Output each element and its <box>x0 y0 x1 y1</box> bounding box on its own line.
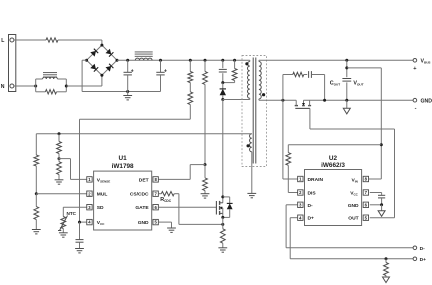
primary phase dot <box>245 62 248 65</box>
bulk capacitor C1 <box>124 60 134 91</box>
wire GATE <box>158 206 216 208</box>
body diode D6 <box>223 197 233 218</box>
node aux divider <box>58 132 61 135</box>
wire DET <box>158 165 205 180</box>
ground R15 arrow <box>383 276 390 283</box>
resistor RCDC <box>161 192 174 196</box>
ground COUT <box>343 100 350 114</box>
vsense resistor R11 <box>57 159 62 175</box>
node drain line <box>221 98 224 101</box>
transistor Q2 pads <box>295 105 311 107</box>
node clamp cap top <box>221 59 224 62</box>
svg-text:D+: D+ <box>308 216 315 222</box>
svg-text:NTC: NTC <box>67 211 77 216</box>
NTC thermistor <box>58 216 68 231</box>
U2 pin6 label GND <box>348 203 359 209</box>
snubber leg left <box>283 75 293 101</box>
U2 pin5 label OUT <box>348 216 358 222</box>
mul resistor R8 <box>34 134 39 166</box>
ground C4 <box>75 249 84 253</box>
svg-text:+: + <box>164 68 167 74</box>
bridge diode D4 lower-right <box>105 64 113 72</box>
damping resistor R2 <box>36 86 67 94</box>
svg-text:iW662/3: iW662/3 <box>321 162 345 169</box>
RCDC label <box>160 197 172 203</box>
node MUL <box>35 192 38 195</box>
U2 pin 7 <box>363 190 368 195</box>
node VIN DIS <box>380 143 383 146</box>
svg-text:SD: SD <box>97 205 104 211</box>
wire R5 down <box>204 84 206 164</box>
wire CS down <box>174 194 223 225</box>
bulk capacitor C2 <box>156 60 167 91</box>
node choke right <box>65 85 68 88</box>
ground R11 <box>55 175 64 185</box>
U2 pin2 label DIS <box>308 191 317 197</box>
wire DIS <box>288 165 297 192</box>
node Cout tap <box>345 66 348 69</box>
line sense resistor R5 <box>203 60 208 84</box>
U2 pin 3 <box>298 202 303 207</box>
dis resistor R14 <box>286 145 291 166</box>
svg-text:N: N <box>1 84 5 90</box>
ground R9 <box>32 220 41 234</box>
transistor Q1 channel <box>219 201 221 215</box>
ground R12 <box>218 243 227 252</box>
svg-text:D-: D- <box>308 203 314 209</box>
U2 pin7 label VCC <box>350 191 358 197</box>
bridge diode D1 upper-left <box>90 49 98 57</box>
svg-text:+: + <box>131 68 134 74</box>
Q2 source stub <box>309 100 311 105</box>
wire N to choke <box>14 85 36 87</box>
U2 part number <box>321 162 345 169</box>
node gnd rail <box>126 90 129 93</box>
Vbus rail <box>259 59 413 61</box>
node U2 gnd <box>380 203 383 206</box>
svg-text:GND: GND <box>421 98 432 104</box>
mul resistor R9 <box>34 194 39 220</box>
startup resistor R3 <box>188 60 193 82</box>
wire startup to Vcc <box>80 105 191 223</box>
wire Q1 source down <box>222 217 224 228</box>
clamp capacitor C3 <box>219 60 227 82</box>
terminal D+ <box>413 257 426 263</box>
terminal block J1 <box>9 35 16 92</box>
wire CS <box>158 193 161 195</box>
node VCC <box>78 221 81 224</box>
node R3 top <box>189 59 192 62</box>
U1 pin8 label DET <box>139 177 149 183</box>
bridge diode D3 lower-left <box>90 64 98 72</box>
wire U2 gnd <box>370 204 382 206</box>
U1 pin 4 <box>87 219 92 224</box>
U2 pin 8 <box>363 176 368 181</box>
secondary gnd rail left <box>259 99 296 101</box>
svg-text:U2: U2 <box>329 155 338 162</box>
vcc capacitor C6 <box>370 193 385 205</box>
node VSENSE <box>58 157 61 160</box>
snubber wire mid <box>304 74 307 76</box>
output capacitor COUT <box>342 60 351 100</box>
clamp diode D5 <box>220 83 226 100</box>
node Q1 source <box>221 216 224 219</box>
bridge diode D2 upper-right <box>105 49 113 57</box>
U1 pin 3 <box>87 205 92 210</box>
wire R10b <box>58 154 60 159</box>
secondary winding <box>259 60 261 100</box>
Q2 gate bar <box>295 107 310 109</box>
wire VIN <box>347 68 382 179</box>
Q1 drain lead <box>220 100 223 203</box>
wire VSENSE <box>59 159 87 180</box>
svg-text:CS/CDC: CS/CDC <box>130 192 149 198</box>
svg-text:U1: U1 <box>119 155 128 162</box>
ground NTC <box>59 229 68 238</box>
U2 pin 5 <box>363 215 368 220</box>
Q2 drain stub <box>295 100 297 105</box>
Q2 body arrow <box>302 100 305 105</box>
node D+ pulldown <box>385 257 388 260</box>
vcc capacitor C4 <box>76 222 84 248</box>
U1 pin 1 <box>87 177 92 182</box>
primary ground rail <box>82 91 160 93</box>
bridge node top <box>100 44 103 47</box>
U2 pin4 label D+ <box>308 216 315 222</box>
bridge BR1 frame <box>87 45 117 75</box>
svg-text:DET: DET <box>139 177 149 183</box>
wire R8 to MUL node <box>35 166 37 194</box>
primary winding <box>248 60 250 99</box>
terminal L <box>1 38 14 44</box>
U2 pin8 label VIN <box>352 177 358 183</box>
svg-text:OUT: OUT <box>348 216 358 222</box>
startup resistor R4 <box>188 83 193 105</box>
pulldown resistor R15 <box>384 259 389 276</box>
node clamp R top <box>233 59 236 62</box>
U1 pin7 label CSCDC <box>130 192 149 198</box>
wire bridge minus <box>82 60 87 91</box>
wire L to fuse <box>14 39 46 41</box>
U2 pin 1 <box>298 176 303 181</box>
Q1 source lead <box>220 208 223 218</box>
svg-text:MUL: MUL <box>97 192 108 198</box>
COUT label <box>330 80 341 86</box>
NTC label <box>67 211 77 216</box>
fuse resistor RF1 <box>46 38 58 42</box>
terminal D- <box>413 246 425 252</box>
bridge node bottom <box>100 74 103 77</box>
Q1 body arrow <box>220 206 223 209</box>
bridge node right <box>116 59 119 62</box>
U1 pin 7 <box>153 191 158 196</box>
filter inductor L2 <box>135 58 152 60</box>
node snubber right <box>323 99 326 102</box>
svg-text:GATE: GATE <box>135 205 149 211</box>
ground primary rail <box>123 92 132 100</box>
node Cout gnd <box>345 99 348 102</box>
U2 pin 6 <box>363 202 368 207</box>
svg-text:iW1798: iW1798 <box>112 163 134 170</box>
wire DIS top <box>288 144 381 146</box>
U1 pin1 label VSENSE <box>97 177 110 183</box>
U1 pin 6 <box>153 205 158 210</box>
U1 label <box>119 155 128 162</box>
secondary phase dot <box>262 93 265 96</box>
choke core lines <box>43 73 57 77</box>
node snubber left <box>281 99 284 102</box>
wire SD <box>63 207 87 216</box>
ground U2 <box>378 205 385 217</box>
U1 pin2 label MUL <box>97 192 108 198</box>
ground DET divider <box>201 191 210 199</box>
bridge node left <box>85 59 88 62</box>
U1 pin6 label GATE <box>135 205 149 211</box>
node clamp mid <box>221 81 224 84</box>
U1 pin5 label GND <box>138 220 149 226</box>
aux sense wire <box>36 133 252 135</box>
svg-text:DRAIN: DRAIN <box>308 177 324 183</box>
U1 pin 8 <box>153 177 158 182</box>
node R5 top <box>204 59 207 62</box>
U1 pin 2 <box>87 191 92 196</box>
wire MUL <box>36 193 87 195</box>
U2 pin1 label DRAIN <box>308 177 324 183</box>
snubber leg right <box>311 75 324 101</box>
aux phase dot <box>247 144 250 147</box>
transformer core <box>253 58 256 164</box>
secondary gnd rail right <box>304 99 414 101</box>
sense resistor R12 <box>220 229 225 243</box>
svg-text:DIS: DIS <box>308 191 317 197</box>
node Vbus Cout <box>345 59 348 62</box>
VOUT label <box>353 80 363 86</box>
wire DRAIN <box>283 100 298 179</box>
U2 pin 2 <box>298 190 303 195</box>
U2 pin 4 <box>298 215 303 220</box>
clamp resistor R7 <box>223 60 237 82</box>
U2 pin3 label D- <box>308 203 314 209</box>
node cap C2 <box>159 59 162 62</box>
aux winding <box>250 134 252 194</box>
wire VCC <box>80 221 87 223</box>
common-mode choke L1 <box>36 77 67 86</box>
wire Q2 gate <box>310 108 395 217</box>
svg-text:D+: D+ <box>420 257 427 263</box>
sense resistor R6 <box>203 165 208 191</box>
U1 part number <box>112 163 134 170</box>
ground aux <box>247 193 256 197</box>
op-amp U2 body <box>305 170 362 226</box>
vsense resistor R10 <box>57 134 62 154</box>
U1 pin3 label SD <box>97 205 104 211</box>
node cap C1 <box>126 59 129 62</box>
terminal GND <box>413 98 432 111</box>
terminal N <box>1 84 14 90</box>
wire fuse to bridge top <box>58 40 102 45</box>
U2 label <box>329 155 338 162</box>
node choke left <box>34 85 37 88</box>
wire D- <box>286 205 413 248</box>
inductor core lines <box>135 52 153 56</box>
terminal VBUS <box>413 58 430 72</box>
node DET divider <box>204 163 207 166</box>
svg-text:D-: D- <box>420 246 426 252</box>
op-amp U1 body <box>94 171 152 230</box>
U1 pin 5 <box>153 219 158 224</box>
node CS <box>221 223 224 226</box>
bus rail <box>117 59 250 61</box>
svg-text:-: - <box>415 106 417 112</box>
node Q1 drain diode <box>221 195 224 198</box>
wire D+ <box>290 218 413 259</box>
snubber resistor R13 <box>293 72 304 76</box>
transistor Q1 gate bar <box>215 201 217 215</box>
transformer T1 shield box <box>242 56 267 167</box>
wire N to bridge bottom <box>66 75 102 86</box>
svg-text:GND: GND <box>138 220 149 226</box>
wire primary bottom <box>223 99 250 101</box>
svg-text:GND: GND <box>348 203 359 209</box>
ground U1 GND pin <box>158 222 176 232</box>
snubber capacitor C5 <box>309 71 312 78</box>
U1 pin4 label VCC <box>97 220 105 226</box>
